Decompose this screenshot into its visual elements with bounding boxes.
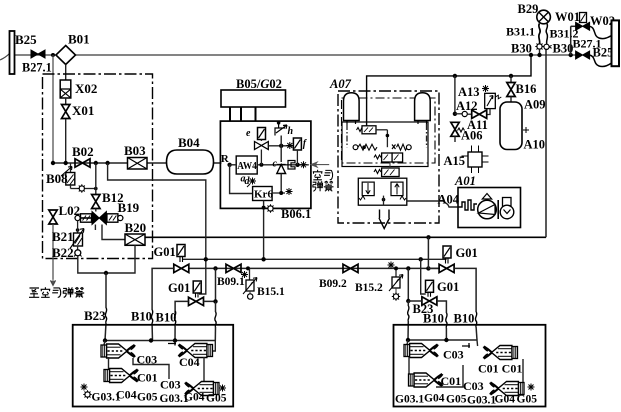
svg-text:C01 C01: C01 C01: [478, 362, 522, 376]
wire: B30 right column to y237: [545, 47, 547, 237]
port R: [221, 153, 232, 167]
svg-text:G05: G05: [206, 393, 227, 405]
label G05 right: [446, 394, 467, 406]
label W02: [590, 14, 615, 28]
wire: rail B supply line y268.4: [189, 266, 441, 270]
dryer tank B04: [167, 150, 214, 174]
label B10 right-2: [454, 312, 475, 326]
svg-text:B19: B19: [118, 200, 140, 215]
label A07: [329, 77, 352, 91]
wire: W1 pilot line from B02 line to rail A: [108, 163, 206, 294]
svg-text:B31.1: B31.1: [506, 25, 535, 39]
label B23 left: [84, 308, 106, 323]
svg-text:B29: B29: [518, 2, 539, 16]
label A13: [458, 85, 480, 99]
label B05/G02: [236, 77, 282, 91]
label C03 right box: [443, 348, 464, 362]
wire: C04 to bottom spring link: [203, 357, 205, 382]
svg-text:A07: A07: [329, 77, 352, 91]
coupling B30 left: [535, 42, 543, 57]
label L02: [59, 203, 81, 218]
label C03 lower: [160, 378, 181, 392]
label B01: [68, 32, 90, 47]
label B12: [102, 190, 124, 205]
label G04 right: [424, 393, 445, 405]
label B16: [516, 82, 537, 96]
label A04: [438, 193, 460, 207]
rear axle box right: [394, 325, 546, 407]
vent star right port: [300, 161, 307, 168]
label A11: [467, 118, 488, 132]
solenoid valve G01 upper-left: [174, 245, 189, 273]
wire: G01 UR output drop: [454, 268, 477, 340]
manifold ports: [230, 107, 256, 121]
chinese label to air spring: [29, 287, 84, 297]
label C04: [179, 355, 200, 369]
label W01: [555, 10, 580, 24]
svg-text:B03: B03: [124, 143, 146, 158]
wire: fork link left box: [133, 358, 169, 379]
spring linkage row: [347, 124, 427, 150]
label G05: [137, 392, 158, 404]
air spring C03/G04 (left box bottom-right, mirrored): [185, 382, 226, 396]
svg-text:B10: B10: [131, 310, 152, 324]
air spring C03 (left box top-left): [101, 344, 135, 358]
compressor: [478, 194, 499, 220]
lever valve h: [275, 121, 294, 137]
pilot valve v2: [374, 153, 403, 162]
svg-text:G05: G05: [446, 394, 467, 406]
svg-text:B25: B25: [15, 32, 37, 47]
svg-text:C03: C03: [443, 348, 464, 362]
svg-text:G03.1: G03.1: [395, 394, 424, 406]
wire: drop from main line at x53: [51, 53, 55, 163]
svg-text:B27.1: B27.1: [22, 61, 52, 75]
svg-text:X01: X01: [72, 103, 94, 118]
wire: rail B drop to G01 LR: [406, 268, 410, 303]
label B09.2: [319, 278, 347, 290]
label B31.2: [550, 27, 579, 41]
label B10 left-1: [131, 310, 152, 324]
label B21: [52, 229, 74, 244]
wire: B23 left drop with hose: [105, 273, 107, 341]
drain funnel A07: [379, 210, 390, 229]
svg-text:G01: G01: [456, 246, 478, 260]
label B27.1 (top left): [22, 61, 52, 75]
valve B25 right: [576, 51, 590, 59]
wire: link right box right column: [436, 359, 523, 387]
label B15.2: [355, 282, 383, 294]
label G03.1 second: [160, 393, 189, 405]
label B06.1: [281, 207, 311, 221]
svg-text:B04: B04: [178, 135, 200, 150]
valve B16: [507, 76, 515, 102]
solenoid valve G01 lower-left: [189, 281, 204, 306]
label G01 lower-right: [437, 280, 459, 294]
wire: G01 LL left port to B10 drop: [174, 301, 188, 341]
label A06: [461, 129, 483, 143]
wall plate right: [612, 20, 620, 66]
motor: [500, 198, 514, 219]
module A07 box: [338, 91, 439, 223]
label A12: [456, 99, 478, 113]
solenoid valve G01 upper-right: [439, 246, 454, 273]
vent B22: [74, 246, 82, 257]
wire: Kr6 to star: [272, 188, 292, 195]
svg-text:B20: B20: [125, 220, 147, 235]
air spring (right box bottom-right, mirrored): [490, 382, 535, 396]
svg-text:C04: C04: [179, 355, 200, 369]
valve block B06.1: [220, 121, 311, 208]
svg-text:C03: C03: [160, 378, 181, 392]
svg-text:B09.2: B09.2: [319, 278, 347, 290]
wire: main supply line: [14, 54, 577, 56]
svg-text:A13: A13: [458, 85, 480, 99]
wire: C03 to C01 link: [108, 357, 110, 370]
label C04 lower: [116, 388, 137, 402]
valve W01: [576, 13, 590, 31]
T connector right box: [462, 343, 470, 348]
wire: A13 column: [453, 76, 457, 116]
label A10: [524, 138, 546, 152]
svg-text:C01: C01: [441, 374, 462, 388]
svg-text:B05/G02: B05/G02: [236, 77, 282, 91]
svg-text:G01: G01: [154, 245, 176, 259]
label G03.1 right-2: [467, 395, 496, 407]
label B20: [125, 220, 147, 235]
label a: [241, 174, 246, 185]
left module box (dash-dot): [43, 74, 153, 259]
svg-text:B06.1: B06.1: [281, 207, 311, 221]
svg-text:Kr6: Kr6: [254, 189, 273, 201]
svg-text:G04: G04: [495, 394, 516, 406]
svg-text:B15.2: B15.2: [355, 282, 383, 294]
wire: G01 LL right port riser: [204, 268, 218, 341]
wire: h to c column: [280, 136, 282, 163]
label A09: [524, 98, 546, 112]
valve L02: [49, 210, 57, 279]
svg-text:B08: B08: [46, 171, 68, 186]
compressor unit A01 box: [458, 188, 521, 228]
label B10 right-1: [423, 312, 444, 326]
label B23 right: [413, 302, 434, 316]
svg-text:B21: B21: [52, 229, 74, 244]
wire: B02 line y163: [51, 161, 222, 165]
svg-text:B30: B30: [511, 42, 532, 56]
valve B02: [75, 159, 90, 167]
svg-text:B22: B22: [52, 245, 74, 260]
label G04: [184, 392, 205, 404]
svg-text:AW4: AW4: [237, 161, 257, 172]
label C01 right box: [441, 374, 462, 388]
relief valve A13: [482, 85, 501, 115]
label G05 second: [206, 393, 227, 405]
label C03: [137, 353, 158, 367]
label G01 upper-right: [456, 246, 478, 260]
valve B09.1: [226, 264, 241, 272]
arrow to front air springs: [50, 279, 55, 286]
svg-text:h: h: [288, 126, 294, 137]
wire: B19 to B20: [102, 225, 125, 240]
air spring C04 (left box top-right, mirrored): [178, 344, 212, 358]
regulator AW4: [236, 156, 257, 174]
svg-text:A10: A10: [524, 138, 546, 152]
label C03 right lower: [463, 379, 484, 393]
vent port after B08: [78, 184, 98, 192]
wire: rail A right drop to solenoid: [421, 259, 426, 294]
coupling B30 right: [544, 44, 552, 49]
label G01 upper-left: [154, 245, 176, 259]
arrow air spring outlet: [311, 162, 329, 167]
svg-text:c: c: [273, 159, 278, 170]
check valve A06: [451, 122, 465, 142]
accumulator dome left: [344, 93, 360, 124]
svg-text:B02: B02: [72, 144, 94, 159]
pressure switch B15.2: [388, 262, 404, 301]
valve B19 (pilot operated): [75, 209, 123, 231]
svg-text:G04: G04: [184, 392, 205, 404]
orifice B03: [128, 158, 148, 170]
svg-text:A04: A04: [438, 193, 460, 207]
svg-text:C04: C04: [116, 388, 137, 402]
hose W02: [590, 26, 612, 38]
valve B12: [92, 195, 100, 209]
valve B27.1: [31, 50, 45, 58]
pressure switch B15.1: [241, 268, 257, 299]
pilot valve v1: [357, 126, 390, 147]
svg-text:B25: B25: [593, 46, 614, 60]
air tank A09/A10: [500, 102, 529, 150]
A07 inner dash-dot frame: [342, 98, 436, 163]
svg-text:G03.1: G03.1: [467, 395, 496, 407]
svg-text:B10: B10: [423, 312, 444, 326]
hose B31.2: [546, 24, 547, 45]
svg-text:B01: B01: [68, 32, 90, 47]
label B19: [118, 200, 140, 215]
drain B08: [61, 163, 79, 189]
directional valve A07 bottom: [358, 178, 407, 205]
vent G03.1 left: [81, 384, 92, 399]
wire: G01 UR feed column: [428, 237, 440, 268]
label B31.1: [506, 25, 535, 39]
label B04: [178, 135, 200, 150]
svg-text:C03: C03: [463, 379, 484, 393]
label B22: [52, 245, 74, 260]
hose B25 right: [590, 55, 612, 67]
label C01 C01: [478, 362, 522, 376]
svg-text:X02: X02: [75, 81, 97, 96]
label B08: [46, 171, 68, 186]
label A15: [444, 154, 466, 168]
wire: R to AW4 and c line: [230, 163, 309, 167]
label B25 right: [593, 46, 614, 60]
wire: pilot line y76: [367, 53, 534, 126]
rear axle box left: [73, 325, 234, 407]
pressure switch B21: [70, 221, 84, 249]
filter X02: [60, 80, 71, 98]
air spring (right box top-right, mirrored): [483, 346, 517, 360]
svg-text:B10: B10: [156, 311, 177, 325]
label G03.1: [92, 392, 121, 404]
label B29: [518, 2, 539, 16]
wall plate left: [10, 31, 15, 74]
orifice B20: [125, 234, 145, 245]
wire: G01 LR output drop: [437, 301, 447, 340]
label B30 right: [553, 42, 574, 56]
svg-text:A06: A06: [461, 129, 483, 143]
label X01: [72, 103, 94, 118]
A07 inner solid frame: [342, 122, 428, 167]
wire: e to f line y146: [268, 144, 293, 148]
label B30 left: [511, 42, 532, 56]
chinese label air spring: [313, 170, 334, 191]
svg-text:e: e: [246, 128, 251, 139]
wire: Kr6 bottom outlet: [262, 201, 275, 260]
label B03: [124, 143, 146, 158]
solenoid valve G01 lower-right: [422, 280, 437, 305]
label G05 right-2: [517, 394, 538, 406]
svg-text:W01: W01: [555, 10, 580, 24]
pilot valve v3: [374, 162, 399, 177]
svg-text:A15: A15: [444, 154, 466, 168]
hose B31.1: [539, 24, 540, 45]
relay Kr6: [230, 165, 274, 201]
svg-text:B16: B16: [516, 82, 537, 96]
wire: G01 UL to B10 drop: [151, 268, 173, 341]
label G01 lower-left: [168, 281, 190, 295]
valve X01: [61, 98, 69, 163]
svg-text:G05: G05: [137, 392, 158, 404]
label B09.1: [217, 276, 245, 288]
T connector left box: [168, 341, 176, 346]
wire: right box internal header: [406, 338, 478, 346]
manifold B05/G02: [221, 90, 286, 107]
wire: drop from B01 to X02: [65, 65, 67, 81]
wire: long line B20 to right side y237: [145, 235, 546, 239]
valve B09.2: [343, 264, 358, 272]
check valve c: [273, 159, 286, 194]
wire: B23 right drop: [408, 301, 409, 340]
filter B01: [56, 46, 76, 65]
accumulator dome right: [415, 93, 431, 124]
valve A11 with port: [455, 110, 487, 118]
wire: G01 LR left port: [408, 300, 422, 302]
solenoid valve e: [246, 128, 268, 165]
svg-text:G04: G04: [424, 393, 445, 405]
wire: link right box left column: [408, 357, 410, 374]
label C01: [137, 371, 158, 385]
wire: B22 B20 drain line y273: [78, 245, 135, 275]
label B27.1 right: [573, 37, 602, 51]
svg-text:G01: G01: [437, 280, 459, 294]
label G03.1 right: [395, 394, 424, 406]
svg-text:G05: G05: [517, 394, 538, 406]
pressure sensor A15: [462, 146, 489, 174]
test gauge B29: [537, 10, 551, 24]
vent star d: [245, 176, 257, 187]
label A01: [454, 174, 476, 188]
label B02: [72, 144, 94, 159]
wire: left box internal header: [103, 338, 216, 351]
label B10 left-2: [156, 311, 177, 325]
svg-text:B10: B10: [454, 312, 475, 326]
svg-text:G01: G01: [168, 281, 190, 295]
svg-text:B15.1: B15.1: [257, 286, 285, 298]
wire: column x96 B12 feed: [95, 163, 97, 195]
label X02: [75, 81, 97, 96]
air spring C01 (left box bottom-left): [104, 369, 138, 383]
wire: rail A pilot line y259.3: [182, 257, 447, 261]
wire: W01 branch: [569, 26, 577, 57]
svg-text:A01: A01: [454, 174, 476, 188]
wire: inlet squiggle left: [0, 53, 10, 60]
wire: A04 hose: [407, 201, 458, 207]
solenoid f: [286, 138, 308, 165]
air spring C03 (right box top-left): [404, 344, 438, 358]
svg-text:B23: B23: [84, 308, 106, 323]
label B25 (top left): [15, 32, 37, 47]
svg-text:C01: C01: [137, 371, 158, 385]
label B15.1: [257, 286, 285, 298]
svg-text:B09.1: B09.1: [217, 276, 245, 288]
muffler zigzag: [458, 200, 477, 210]
cylinder symbol near c: [288, 161, 295, 170]
air spring C01 (right box mid-left): [409, 373, 443, 387]
svg-text:A09: A09: [524, 98, 546, 112]
label G04 right-2: [495, 394, 516, 406]
